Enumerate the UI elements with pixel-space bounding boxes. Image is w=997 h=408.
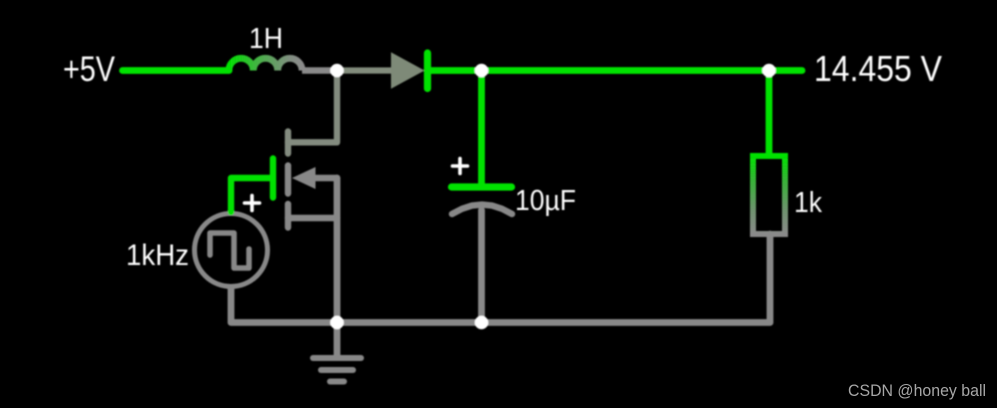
- svg-text:1H: 1H: [249, 23, 283, 55]
- svg-text:1k: 1k: [794, 187, 822, 219]
- svg-text:10µF: 10µF: [515, 185, 576, 217]
- svg-text:1kHz: 1kHz: [126, 239, 189, 272]
- svg-text:14.455 V: 14.455 V: [814, 48, 942, 89]
- svg-text:+5V: +5V: [63, 50, 116, 89]
- svg-text:CSDN @honey ball: CSDN @honey ball: [848, 382, 986, 400]
